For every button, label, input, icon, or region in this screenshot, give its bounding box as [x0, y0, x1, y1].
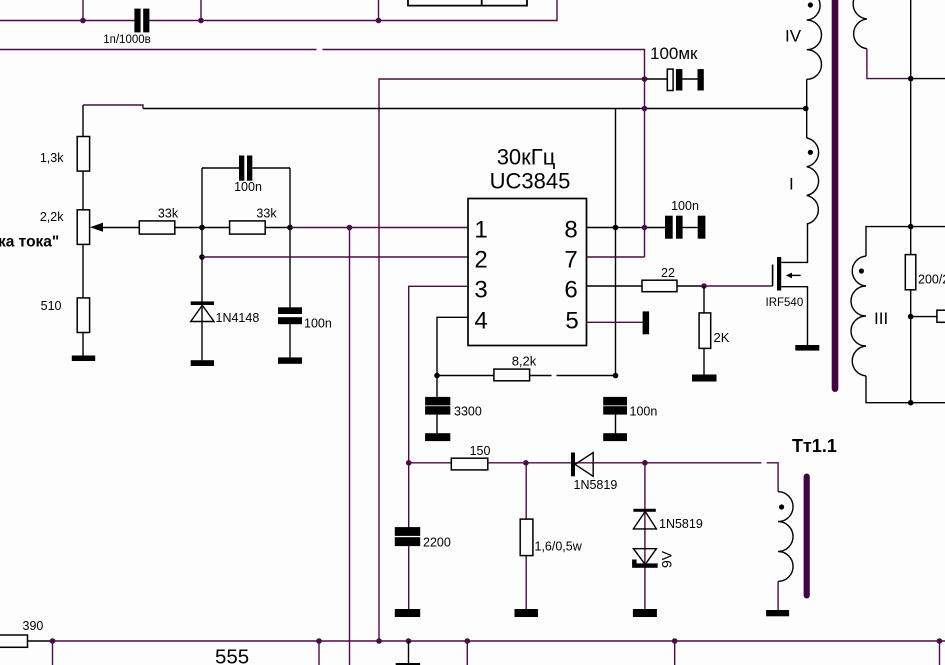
node x910 y78 — [908, 76, 914, 82]
node gate — [701, 283, 707, 289]
node x615 y375 — [613, 373, 619, 379]
winding I — [807, 138, 819, 224]
node x615 y227 — [613, 225, 619, 231]
svg-text:2: 2 — [474, 247, 487, 274]
svg-text:1N5819: 1N5819 — [574, 478, 618, 492]
wire vertical x910 — [910, 0, 912, 403]
svg-text:8,2k: 8,2k — [512, 354, 537, 369]
svg-text:200/2: 200/2 — [918, 273, 945, 287]
wire pin2 purple — [202, 256, 468, 258]
wire pin6 — [587, 285, 643, 287]
svg-text:555: 555 — [215, 646, 249, 665]
winding II secondary top — [853, 0, 867, 49]
resistor 1,3k — [77, 137, 89, 172]
node x437 y375 — [434, 373, 440, 379]
capacitor bar pin5 — [643, 311, 650, 334]
resistor 22 — [642, 280, 677, 292]
resistor 33k first — [139, 221, 175, 234]
svg-text:3: 3 — [474, 277, 487, 304]
wire winding III bottom lead — [866, 376, 945, 403]
wire pot top link purple — [83, 105, 143, 109]
potentiometer 2,2k body — [77, 210, 89, 245]
svg-text:1,3k: 1,3k — [40, 151, 64, 165]
wire stub down x319 — [318, 641, 320, 665]
wire stub down x674 — [674, 641, 676, 665]
wire second horizontal line y48.6 — [0, 50, 645, 80]
node x910 y226 — [908, 224, 914, 230]
capacitor 100n at x615 — [603, 397, 627, 406]
potentiometer wiper arrow — [90, 223, 103, 232]
wire to Tt1.1 — [645, 463, 778, 492]
node top rail x83 — [80, 18, 86, 24]
svg-text:1N5819: 1N5819 — [659, 517, 703, 531]
ground bar zener — [633, 609, 657, 617]
svg-text:1N4148: 1N4148 — [216, 311, 260, 325]
winding III — [851, 256, 866, 376]
wire winding IV to I — [806, 79, 808, 138]
svg-text:ка тока": ка тока" — [0, 234, 59, 251]
wire wiper to 33k — [103, 227, 139, 229]
svg-text:33k: 33k — [256, 207, 277, 221]
resistor at right edge — [937, 310, 945, 322]
node pin3 chain y462 — [406, 460, 412, 466]
capacitor 100n feedback top — [202, 167, 290, 169]
svg-text:100мк: 100мк — [650, 44, 698, 63]
svg-text:IV: IV — [785, 27, 802, 46]
svg-text:33k: 33k — [158, 207, 179, 221]
capacitor 2200 — [395, 527, 420, 536]
wire vertical x290 — [289, 168, 291, 307]
svg-text:100n: 100n — [304, 317, 332, 331]
resistor 2K — [703, 286, 705, 313]
diode 1N5819 horizontal — [526, 462, 645, 464]
node rail x378 — [376, 638, 382, 644]
svg-text:510: 510 — [41, 299, 62, 313]
svg-text:1,6/0,5w: 1,6/0,5w — [535, 540, 583, 554]
svg-text:III: III — [874, 309, 888, 328]
node x201 y227 — [199, 225, 205, 231]
wire 22 to gate node — [677, 285, 704, 287]
node x525 y462 — [523, 460, 529, 466]
ground bar left chain — [72, 356, 95, 362]
wire stub down x408 with ground bar — [408, 641, 410, 663]
node x644 y227 — [642, 225, 648, 231]
wire vertical x201 node chain — [201, 168, 203, 360]
svg-text:3300: 3300 — [454, 405, 482, 419]
resistor 150 — [409, 462, 452, 464]
resistor 510 — [77, 298, 89, 333]
resistor 390 — [0, 635, 28, 647]
capacitor 100n at x290 — [278, 307, 302, 314]
wire frame corner x379 — [379, 79, 645, 641]
wire — [82, 333, 84, 356]
svg-text:IRF540: IRF540 — [766, 297, 804, 309]
svg-text:1п/1000в: 1п/1000в — [103, 34, 151, 46]
svg-text:390: 390 — [23, 619, 44, 633]
wire — [82, 244, 84, 298]
node rail x319 — [316, 638, 322, 644]
wire bottom rail — [53, 640, 945, 642]
resistor 1,6/0,5w — [525, 463, 527, 519]
node x644 y462 — [642, 460, 648, 466]
wire to edge component — [911, 316, 937, 318]
wire pin8 row — [587, 227, 666, 229]
svg-text:100n: 100n — [671, 199, 699, 213]
node rail x467 — [465, 638, 471, 644]
wire vertical x615 from y108 down — [615, 109, 617, 376]
wire stub up at x83 — [82, 0, 84, 21]
wire winding to ground — [777, 581, 779, 610]
winding Tt1.1 — [778, 492, 793, 582]
node rail x939 — [937, 638, 943, 644]
node x910 y316 — [908, 314, 914, 320]
wire winding II lead — [867, 49, 911, 79]
diode 1N4148 — [191, 301, 214, 305]
wire — [82, 171, 84, 210]
node x201 y257 — [199, 254, 205, 260]
op-amp U1 UC3845 box — [468, 199, 587, 346]
node x805 y108.5 — [803, 106, 809, 112]
svg-text:5: 5 — [565, 308, 578, 335]
svg-text:8: 8 — [564, 217, 577, 244]
wire stub down x467 — [466, 641, 468, 665]
wire vertical x349 to bottom edge — [349, 228, 351, 665]
node x349 y227 — [347, 225, 353, 231]
node rail x674 — [672, 638, 678, 644]
svg-text:30кГц: 30кГц — [497, 145, 556, 170]
resistor 8,2k — [437, 375, 616, 377]
wire pin4 — [437, 317, 468, 375]
node x910 y402 — [908, 400, 914, 406]
wire pin1 purple — [290, 227, 468, 229]
wire stub up at x201 — [200, 0, 202, 21]
ground bar mosfet source — [795, 345, 819, 351]
wire top supply rail — [0, 0, 557, 21]
wire pin5 — [587, 321, 643, 323]
resistor 200/2 — [905, 255, 916, 290]
wire right edge y78 — [911, 78, 945, 80]
svg-text:1: 1 — [474, 217, 487, 244]
transformer core Tt1.1 — [804, 474, 810, 599]
ground bar 2K — [692, 375, 717, 382]
svg-text:22: 22 — [661, 266, 675, 280]
wire pin3 purple — [409, 286, 468, 527]
svg-text:100n: 100n — [630, 405, 658, 419]
transistor Q1 IRF540 — [777, 257, 781, 291]
svg-text:4: 4 — [474, 308, 487, 335]
wire horizontal y108.5 to transformer — [143, 108, 806, 110]
zener diode 9V — [633, 549, 656, 565]
wire stub down x939 — [939, 641, 941, 665]
node rail x52 — [50, 638, 56, 644]
capacitor 1n/1000v plates — [134, 9, 140, 33]
node top rail x201 — [198, 18, 204, 24]
wire gate purple — [704, 285, 773, 287]
svg-text:Тт1.1: Тт1.1 — [792, 436, 837, 456]
resistor 33k second — [230, 221, 266, 234]
node rail x408 — [406, 638, 412, 644]
wire winding III top lead — [866, 227, 945, 257]
node x290 y227 — [287, 225, 293, 231]
transformer core T1 main — [832, 0, 839, 392]
wire 33k2 to node — [265, 227, 290, 229]
node x644 y79 — [642, 76, 648, 82]
svg-text:UC3845: UC3845 — [490, 169, 571, 194]
wire left divider chain top — [82, 105, 84, 137]
svg-text:9V: 9V — [659, 550, 675, 568]
node top rail x378 — [376, 18, 382, 24]
diode 1N5819 vertical — [644, 463, 646, 610]
svg-text:7: 7 — [564, 247, 577, 274]
wire stub up at x378 — [378, 0, 380, 21]
wire 33k to node — [175, 227, 230, 229]
wire vertical bus x644 down to pin7 — [644, 79, 646, 257]
svg-text:I: I — [789, 175, 794, 194]
node x644 y108.5 — [642, 106, 648, 112]
svg-text:6: 6 — [564, 277, 577, 304]
wire stub down x52 — [52, 641, 54, 665]
svg-text:150: 150 — [470, 444, 491, 458]
svg-text:100n: 100n — [234, 180, 262, 194]
svg-text:2200: 2200 — [423, 536, 451, 550]
wire pin7 — [587, 256, 645, 258]
winding IV — [807, 0, 822, 79]
capacitor 3300 — [436, 376, 438, 397]
svg-text:2K: 2K — [714, 330, 730, 345]
box top-left block — [408, 0, 527, 6]
svg-text:2,2k: 2,2k — [40, 210, 64, 224]
